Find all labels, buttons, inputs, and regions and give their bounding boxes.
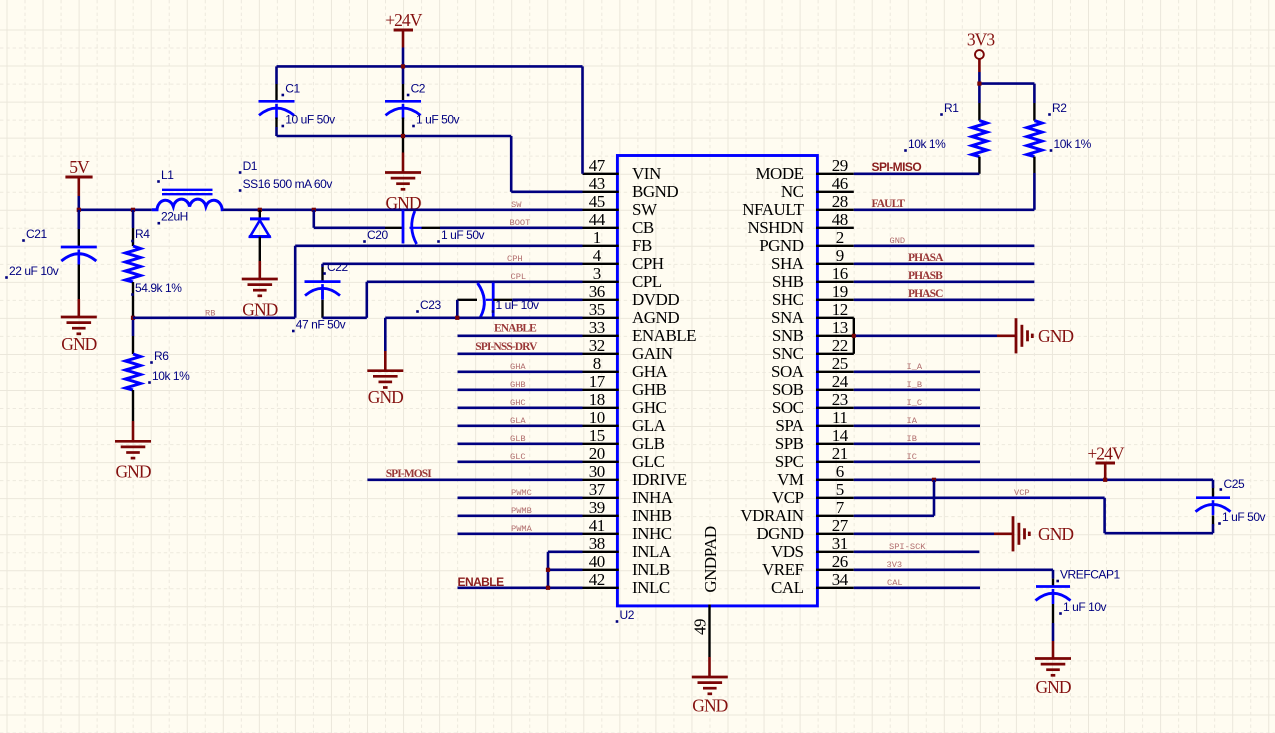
svg-text:30: 30 <box>589 462 605 481</box>
svg-text:I_B: I_B <box>907 380 923 390</box>
svg-text:SOB: SOB <box>772 380 804 399</box>
svg-text:26: 26 <box>832 552 848 571</box>
svg-text:VCP: VCP <box>772 488 804 507</box>
svg-text:GND: GND <box>890 236 906 246</box>
svg-text:SPC: SPC <box>775 452 804 471</box>
svg-text:INLC: INLC <box>632 578 670 597</box>
svg-text:16: 16 <box>832 264 848 283</box>
svg-text:48: 48 <box>832 210 848 229</box>
svg-text:18: 18 <box>589 390 605 409</box>
svg-text:GND: GND <box>115 461 150 481</box>
svg-text:PWMB: PWMB <box>511 506 532 516</box>
svg-text:D1: D1 <box>243 159 258 173</box>
svg-text:38: 38 <box>589 534 605 553</box>
svg-text:1 uF 50v: 1 uF 50v <box>441 228 485 242</box>
svg-text:2: 2 <box>836 228 844 247</box>
svg-text:3: 3 <box>593 264 601 283</box>
svg-text:CAL: CAL <box>771 578 804 597</box>
svg-text:15: 15 <box>589 426 605 445</box>
svg-text:IA: IA <box>907 416 918 426</box>
svg-text:VDRAIN: VDRAIN <box>740 506 803 525</box>
svg-text:10k 1%: 10k 1% <box>908 137 946 151</box>
svg-text:19: 19 <box>832 282 848 301</box>
svg-text:BGND: BGND <box>632 182 678 201</box>
svg-text:10k 1%: 10k 1% <box>1054 137 1092 151</box>
svg-text:SPI-MOSI: SPI-MOSI <box>386 468 433 480</box>
svg-text:GAIN: GAIN <box>632 344 673 363</box>
svg-text:C23: C23 <box>420 298 441 312</box>
svg-text:17: 17 <box>589 372 606 391</box>
svg-text:35: 35 <box>589 300 605 319</box>
svg-text:GHC: GHC <box>510 398 526 408</box>
svg-text:42: 42 <box>589 570 605 589</box>
svg-text:10: 10 <box>589 408 605 427</box>
svg-text:1 uF 10v: 1 uF 10v <box>496 298 540 312</box>
svg-text:PHASC: PHASC <box>908 288 943 300</box>
svg-text:GHC: GHC <box>632 398 667 417</box>
svg-text:VDS: VDS <box>771 542 804 561</box>
svg-text:L1: L1 <box>161 168 174 182</box>
svg-text:INHB: INHB <box>632 506 672 525</box>
svg-text:NFAULT: NFAULT <box>742 200 804 219</box>
svg-text:SHB: SHB <box>772 272 804 291</box>
svg-text:27: 27 <box>832 516 849 535</box>
svg-text:21: 21 <box>832 444 848 463</box>
svg-text:I_C: I_C <box>907 398 923 408</box>
svg-text:GND: GND <box>61 334 96 354</box>
svg-text:25: 25 <box>832 354 848 373</box>
svg-text:ENABLE: ENABLE <box>494 323 537 335</box>
svg-text:IB: IB <box>907 434 917 444</box>
svg-text:IDRIVE: IDRIVE <box>632 470 687 489</box>
svg-text:PHASB: PHASB <box>908 270 943 282</box>
svg-text:12: 12 <box>832 300 848 319</box>
svg-text:49: 49 <box>691 619 710 635</box>
svg-text:VM: VM <box>777 470 804 489</box>
svg-text:SHC: SHC <box>772 290 804 309</box>
svg-text:C21: C21 <box>26 227 47 241</box>
svg-text:SPI-NSS-DRV: SPI-NSS-DRV <box>475 341 538 353</box>
svg-text:PHASA: PHASA <box>908 252 944 264</box>
svg-text:+24V: +24V <box>385 10 423 30</box>
svg-text:47 nF 50v: 47 nF 50v <box>296 318 346 332</box>
svg-text:41: 41 <box>589 516 605 535</box>
svg-text:ENABLE: ENABLE <box>458 575 505 589</box>
svg-text:CB: CB <box>632 218 654 237</box>
svg-text:39: 39 <box>589 498 605 517</box>
svg-text:PWMC: PWMC <box>511 488 532 498</box>
svg-text:DGND: DGND <box>756 524 803 543</box>
svg-text:VIN: VIN <box>632 164 661 183</box>
svg-text:14: 14 <box>832 426 849 445</box>
svg-text:R1: R1 <box>944 101 959 115</box>
svg-text:GLC: GLC <box>510 452 526 462</box>
svg-text:SPI-SCK: SPI-SCK <box>889 542 926 552</box>
svg-text:1: 1 <box>593 228 601 247</box>
svg-text:R2: R2 <box>1052 101 1067 115</box>
svg-text:INLA: INLA <box>632 542 672 561</box>
svg-text:24: 24 <box>832 372 849 391</box>
svg-text:23: 23 <box>832 390 848 409</box>
svg-text:7: 7 <box>836 498 845 517</box>
svg-text:36: 36 <box>589 282 605 301</box>
svg-text:13: 13 <box>832 318 848 337</box>
svg-text:SNC: SNC <box>772 344 804 363</box>
svg-text:INHA: INHA <box>632 488 674 507</box>
svg-text:GLC: GLC <box>632 452 665 471</box>
svg-text:47: 47 <box>589 156 606 175</box>
svg-text:GND: GND <box>692 696 727 716</box>
svg-text:AGND: AGND <box>632 308 679 327</box>
svg-text:1 uF 10v: 1 uF 10v <box>1063 600 1107 614</box>
svg-text:C25: C25 <box>1224 477 1245 491</box>
svg-text:SNB: SNB <box>772 326 804 345</box>
svg-text:22 uF 10v: 22 uF 10v <box>9 264 59 278</box>
svg-text:PGND: PGND <box>759 236 804 255</box>
svg-text:IC: IC <box>907 452 917 462</box>
svg-text:GLB: GLB <box>632 434 665 453</box>
svg-text:FB: FB <box>632 236 652 255</box>
svg-text:CPH: CPH <box>632 254 664 273</box>
svg-text:5: 5 <box>836 480 844 499</box>
svg-text:FAULT: FAULT <box>872 198 906 210</box>
svg-text:GND: GND <box>1038 524 1073 544</box>
svg-text:U2: U2 <box>620 608 635 622</box>
svg-text:R6: R6 <box>154 349 169 363</box>
svg-text:INHC: INHC <box>632 524 672 543</box>
svg-text:43: 43 <box>589 174 605 193</box>
svg-text:11: 11 <box>832 408 847 427</box>
svg-text:SPA: SPA <box>775 416 804 435</box>
svg-text:+24V: +24V <box>1087 443 1125 463</box>
svg-text:37: 37 <box>589 480 606 499</box>
svg-text:GHB: GHB <box>632 380 667 399</box>
svg-text:29: 29 <box>832 156 848 175</box>
svg-text:GLB: GLB <box>510 434 526 444</box>
svg-text:GLA: GLA <box>510 416 526 426</box>
svg-text:SS16 500 mA 60v: SS16 500 mA 60v <box>243 177 333 191</box>
svg-text:9: 9 <box>836 246 844 265</box>
svg-text:SOA: SOA <box>771 362 805 381</box>
svg-text:RB: RB <box>205 308 215 318</box>
svg-text:GND: GND <box>368 387 403 407</box>
svg-text:I_A: I_A <box>907 362 923 372</box>
svg-text:DVDD: DVDD <box>632 290 679 309</box>
svg-text:32: 32 <box>589 336 605 355</box>
svg-text:GLA: GLA <box>632 416 667 435</box>
svg-text:46: 46 <box>832 174 848 193</box>
svg-text:45: 45 <box>589 192 605 211</box>
svg-text:GHA: GHA <box>510 362 526 372</box>
svg-text:MODE: MODE <box>755 164 803 183</box>
svg-text:C2: C2 <box>411 82 426 96</box>
svg-text:NC: NC <box>781 182 804 201</box>
svg-text:SPB: SPB <box>775 434 804 453</box>
svg-text:10k 1%: 10k 1% <box>152 369 190 383</box>
svg-text:28: 28 <box>832 192 848 211</box>
svg-text:C22: C22 <box>327 260 348 274</box>
svg-text:SW: SW <box>632 200 658 219</box>
svg-text:GNDPAD: GNDPAD <box>701 526 720 593</box>
svg-text:CAL: CAL <box>887 578 903 588</box>
svg-text:22uH: 22uH <box>161 210 188 224</box>
svg-text:GND: GND <box>1038 326 1073 346</box>
svg-text:44: 44 <box>589 210 606 229</box>
svg-text:3V3: 3V3 <box>967 30 995 50</box>
svg-text:SPI-MISO: SPI-MISO <box>872 160 922 174</box>
svg-text:VREFCAP1: VREFCAP1 <box>1060 568 1121 582</box>
svg-text:VCP: VCP <box>1014 488 1030 498</box>
svg-text:SOC: SOC <box>772 398 804 417</box>
svg-text:SHA: SHA <box>771 254 805 273</box>
svg-text:C1: C1 <box>285 82 300 96</box>
svg-text:BOOT: BOOT <box>510 218 531 228</box>
svg-text:33: 33 <box>589 318 605 337</box>
svg-text:R4: R4 <box>135 227 150 241</box>
svg-text:3V3: 3V3 <box>887 560 903 570</box>
svg-text:31: 31 <box>832 534 848 553</box>
svg-text:40: 40 <box>589 552 605 571</box>
svg-text:1 uF 50v: 1 uF 50v <box>416 113 460 127</box>
svg-text:CPL: CPL <box>511 272 527 282</box>
svg-text:SW: SW <box>511 200 522 210</box>
svg-text:22: 22 <box>832 336 848 355</box>
svg-text:6: 6 <box>836 462 844 481</box>
svg-text:20: 20 <box>589 444 605 463</box>
svg-text:8: 8 <box>593 354 601 373</box>
svg-text:4: 4 <box>593 246 602 265</box>
svg-text:5V: 5V <box>69 157 90 177</box>
svg-text:INLB: INLB <box>632 560 670 579</box>
svg-text:ENABLE: ENABLE <box>632 326 696 345</box>
svg-text:54.9k 1%: 54.9k 1% <box>135 281 182 295</box>
svg-text:CPH: CPH <box>507 254 523 264</box>
svg-text:1 uF 50v: 1 uF 50v <box>1222 510 1266 524</box>
svg-text:10 uF 50v: 10 uF 50v <box>285 113 335 127</box>
svg-text:C20: C20 <box>367 228 388 242</box>
svg-text:VREF: VREF <box>762 560 804 579</box>
svg-text:SNA: SNA <box>771 308 805 327</box>
svg-text:GND: GND <box>1035 677 1070 697</box>
svg-text:34: 34 <box>832 570 849 589</box>
svg-text:NSHDN: NSHDN <box>747 218 803 237</box>
svg-text:CPL: CPL <box>632 272 662 291</box>
svg-text:GHB: GHB <box>510 380 526 390</box>
svg-text:GHA: GHA <box>632 362 669 381</box>
svg-text:PWMA: PWMA <box>511 524 533 534</box>
